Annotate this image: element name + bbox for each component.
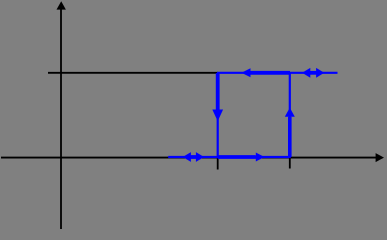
- blue rising edge: [289, 73, 291, 157]
- blue falling edge: [217, 73, 219, 157]
- thick right arrow on bottom branch: [218, 153, 265, 162]
- blue bottom branch: [168, 156, 291, 158]
- thick up arrow on rising edge: [285, 108, 295, 157]
- upper-threshold tick: [289, 158, 291, 169]
- thick left arrow on top branch: [241, 68, 290, 77]
- double arrow on top-right overhang: [302, 68, 324, 78]
- x-axis: [1, 153, 384, 162]
- double arrow on bottom-left overhang: [183, 152, 204, 162]
- lower-threshold tick: [217, 158, 219, 170]
- blue top branch: [217, 72, 338, 74]
- thick down arrow on falling edge: [212, 73, 223, 121]
- output-high level line (black): [48, 72, 218, 74]
- y-axis: [57, 1, 66, 229]
